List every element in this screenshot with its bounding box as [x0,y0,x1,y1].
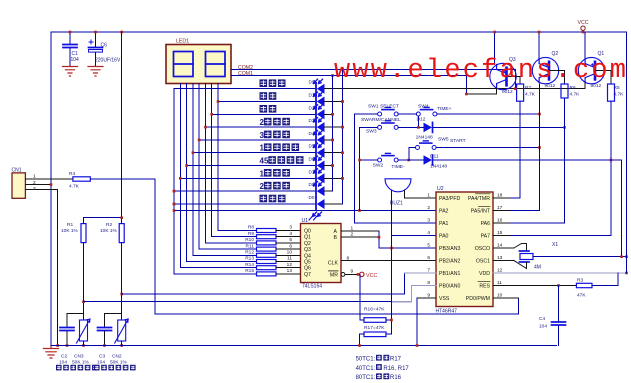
junction D4 on cathode bus [331,139,334,142]
junction D0 tap on v1 [173,203,176,206]
junction row D4 tap [198,139,201,142]
svg-text:Q0: Q0 [304,229,311,235]
thermistor CN2 50K [115,319,129,343]
junction PA2 row on v1 [173,209,176,212]
label 煲盖测温电阻 [56,365,98,371]
svg-text:45: 45 [260,157,269,166]
wire D12 cathode to R6 net [434,126,565,128]
junction PA2 riser [358,209,361,212]
junction bus A row D6 [331,164,334,167]
junction buzzer riser on PB3 wire [390,247,393,250]
svg-text:3: 3 [260,131,265,140]
wire R5 vertical [610,101,612,235]
wire TIME+ to scan net [437,113,540,115]
svg-text:Q5: Q5 [304,260,311,266]
svg-text:R11: R11 [246,243,255,249]
svg-text:3: 3 [33,186,36,192]
svg-text:3: 3 [427,218,430,224]
svg-text:PB1/AN1: PB1/AN1 [439,271,460,277]
wire Q1 emitter from VCC [584,32,586,59]
junction C6 top [94,31,97,34]
svg-text:104: 104 [71,57,80,63]
junction SW5 drop on TIME- row [408,159,411,162]
svg-text:U2: U2 [437,186,444,192]
wire AN1 bus to U2 pin7 riser [122,273,405,294]
wire R8 to U1 pin 3 [276,230,301,232]
wire BUZ1 right lead to PA3/PFD [405,190,436,198]
svg-text:VDD: VDD [479,271,490,277]
wire R13 to U1 pin 11 [276,261,301,263]
wire D9 row (keep-warm) [174,88,316,90]
wire Q2 emitter from VCC [538,32,540,59]
wire CN3 bottom [83,341,85,346]
svg-text:A: A [334,229,338,235]
svg-text:Q2: Q2 [304,241,311,247]
wire R17 right up [386,325,392,334]
svg-text:50K 1%: 50K 1% [110,360,128,366]
svg-text:10K 1%: 10K 1% [61,228,79,234]
svg-text:SW1 SELECT: SW1 SELECT [368,104,399,110]
wire Q1 collector drop [584,83,586,89]
LED D2 [314,105,325,120]
wire PA5/INT to scan net [510,210,540,212]
label 接 [376,364,382,370]
svg-text:C3: C3 [99,354,105,360]
junction COM2 on D9 net [514,87,517,90]
svg-text:D4: D4 [309,131,315,136]
wire CN2 bottom [121,341,123,346]
svg-text:X1: X1 [552,242,558,248]
wire PA4/TMR stub [493,197,510,199]
junction row D3 tap [204,126,207,129]
svg-text:D1: D1 [309,93,315,98]
junction row D6 tap [185,164,188,167]
resistor R5 4.7K [608,84,615,101]
LED D4 [314,130,325,145]
wire SW5 drop [408,148,410,161]
svg-text:U1: U1 [302,218,309,224]
junction row D1 tap [217,100,220,103]
junction R2 bus top [120,31,123,34]
diode D11 1N4148 [424,155,433,165]
svg-text:PA7: PA7 [481,234,491,240]
wire R7 vertical [519,101,521,198]
junction C2 ground [66,344,69,347]
wire CN1 pin2 to left bus [25,184,51,186]
wire segment bus v5 [199,84,256,250]
svg-text:D5: D5 [309,144,315,149]
svg-text:1: 1 [427,193,430,199]
svg-text:2: 2 [260,182,265,191]
junction bus B row D7 [341,177,344,180]
wire VSS stub [417,297,436,299]
svg-text:CN2: CN2 [112,354,122,360]
wire D4 anode stub [324,139,333,141]
svg-text:D6: D6 [309,157,315,162]
svg-text:3: 3 [289,225,292,231]
wire COM1 row and drop to Q3 collector wire [231,76,466,95]
capacitor C1 [63,32,77,66]
switch SW2 TIME- [378,153,399,162]
crystal X1 4M [514,244,533,269]
wire R12 to U1 pin 10 [276,254,301,256]
svg-text:104: 104 [539,324,547,330]
junction VCC stem [582,31,585,34]
switch SW1 SELECT [378,107,399,116]
junction bus B row D5 [341,151,344,154]
svg-text:VCC: VCC [366,273,377,279]
junction row D2 tap [210,113,213,116]
label text 快煮 [260,105,277,113]
svg-text:R16, R17: R16, R17 [383,366,409,372]
wire SW3 left [360,126,378,128]
svg-text:5: 5 [427,243,430,249]
LED D0 [313,198,325,216]
wire Q1 base to R5 [595,71,611,84]
svg-text:104: 104 [97,360,105,366]
wire VDD gray to right [493,272,627,274]
junction VSS ground [416,344,419,347]
svg-text:1: 1 [260,144,265,153]
junction crystal net right [625,255,628,258]
wire R15 to U1 pin 13 [276,273,301,275]
svg-text:6: 6 [289,243,292,249]
junction COM2 cathode-bus tap [341,68,344,71]
junction AN1 bus left end [120,293,123,296]
label text 2小时汤 [264,118,290,126]
wire segment bus v8 [218,84,257,231]
wire Q3 base to R7 [507,77,521,85]
svg-text:D12: D12 [417,117,426,123]
thermistor CN3 50K [77,319,91,343]
svg-text:R9: R9 [248,231,254,237]
wire D8 anode stub [324,190,333,192]
wire OSCO stub [493,247,514,249]
wire LED row D8 [174,190,316,192]
wire R14 to U1 pin 12 [276,267,301,269]
junction Q3 emitter VCC [493,31,496,34]
svg-text:Q6: Q6 [304,266,311,272]
switch SW3 SWARM/CANNEL [378,121,399,130]
wire SELECT row left to PA1 riser [355,113,378,115]
LED arrows above U1 (D0) [309,216,318,221]
label text 2小时粥 [264,182,290,190]
wire LED row D3 [205,126,315,128]
svg-text:OSCO: OSCO [475,246,490,252]
wire VSS ground riser [416,298,418,346]
junction D3 on cathode bus [341,126,344,129]
svg-text:OSC1: OSC1 [476,259,490,265]
junction C3 ground [103,344,106,347]
svg-text:MR: MR [330,273,338,279]
wire PWM bus [155,298,519,314]
wire R4 to PWM bus riser [90,179,155,314]
label text 1小时粥 [264,169,290,177]
svg-text:C4: C4 [539,316,545,322]
wire PA1 riser and row [355,114,437,223]
junction row D8 tap [173,190,176,193]
wire R3 to VDD net [592,273,618,286]
wire Q3 collector to COM1 drop [466,89,496,95]
svg-text:C6: C6 [101,43,108,49]
ground under C6 [88,67,103,77]
junction D11 row on R5 vertical [610,159,613,162]
wire LED row D2 [212,113,316,115]
svg-text:10K 1%: 10K 1% [100,228,118,234]
junction nested vertical on crystal wire [620,255,623,258]
junction row D7 tap [179,177,182,180]
svg-text:2: 2 [427,205,430,211]
wire CN1 pin1 to R4 [25,178,73,180]
svg-text:C2: C2 [61,354,67,360]
svg-text:B: B [334,235,338,241]
wire D11 cathode long row [434,159,622,161]
junction SW2 on PA2 riser [358,159,361,162]
svg-text:PA1: PA1 [439,221,449,227]
svg-text:R3: R3 [577,278,583,284]
svg-text:PA0: PA0 [439,234,449,240]
capacitor C2 104 [67,314,84,327]
wire VCC right vertical [626,32,628,273]
junction bus A row D2 [331,113,334,116]
label text 1小时蒸炖 [264,143,299,151]
svg-text:1N4148: 1N4148 [430,164,447,170]
label text 保温灯 [260,79,286,87]
wire RES to R3 [493,285,576,287]
wire LED row D1 [218,101,316,103]
svg-text:PB2/AN2: PB2/AN2 [439,259,460,265]
svg-text:PA4/TMR: PA4/TMR [468,196,490,202]
wire PD0/PWM stub [493,297,519,299]
svg-text:Q4: Q4 [304,253,311,259]
wire Q2 collector / scan vertical [539,84,541,211]
label text 煮饭 [260,92,277,100]
wire U1 CLK to U2 PB2/AN2 [341,260,436,262]
MR bubble [341,273,345,277]
svg-text:CLK: CLK [328,261,339,267]
svg-text:R10: R10 [245,237,254,243]
svg-text:10: 10 [287,250,293,256]
svg-text:R16: R16 [390,375,402,381]
svg-text:SW4: SW4 [418,104,429,110]
wire PA0 net riser to R16/R17 [391,236,393,335]
svg-text:PA3/PFD: PA3/PFD [439,196,460,202]
wire R16 right [386,319,392,321]
wire D7 anode stub [324,177,343,179]
LED D7 [314,169,325,184]
LED D6 [314,156,325,171]
junction D5 on cathode bus [341,151,344,154]
svg-text:PB0/AN0: PB0/AN0 [439,284,460,290]
svg-text:6: 6 [427,255,430,261]
svg-text:1N4148: 1N4148 [416,135,433,141]
wire SW2 left [360,159,378,161]
connector CN1 [12,173,25,198]
wire segment bus v4 [193,84,257,256]
svg-text:R4: R4 [69,171,75,177]
wire SW1 to SW4 bridge [398,113,416,115]
junction R17 ground [358,344,361,347]
svg-text:4: 4 [289,231,292,237]
wire LED row D5 [193,152,316,154]
svg-text:4.7K: 4.7K [69,184,80,190]
wire SW3 to D12 [398,126,423,128]
wire BUZ1 left lead [391,190,393,235]
microcontroller U2 HT46R47 [436,186,494,315]
svg-text:47K: 47K [577,293,586,299]
wire PA6 to R6 net [510,222,565,224]
svg-text:PD0/PWM: PD0/PWM [466,296,490,302]
svg-text:PB3/AN3: PB3/AN3 [439,246,460,252]
junction bus B row D1 [341,100,344,103]
wire R6 vertical [564,98,566,223]
wire D5 anode stub [324,152,343,154]
wire START to scan net [437,147,540,149]
svg-text:12: 12 [287,262,293,268]
wire PB0/AN0 gray stub [411,285,436,287]
wire R2 bottom to CN2 [121,243,123,320]
wire PA7 to R5 net [510,235,611,237]
svg-text:D9: D9 [309,80,315,85]
junction CN3 ground [82,344,85,347]
wire D0 anode stub [324,203,343,205]
wire Q2 base to R6 [549,71,565,84]
wire cathode bus B (COM2) [342,70,344,205]
wire R11 to U1 pin 6 [276,248,301,250]
svg-text:D7: D7 [309,169,315,174]
7-segment display LED1 [166,39,231,84]
wire PA4/TMR to R7 [510,197,520,199]
svg-text:VSS: VSS [439,296,450,302]
wire PA2 net long row [174,210,436,212]
wire VCC riser to R16 [360,274,364,320]
junction CN2 ground [120,344,123,347]
wire SW5 left stub [409,147,416,149]
label text 45分钟稀饭 [268,156,303,164]
wire D6 anode stub [324,165,333,167]
capacitor C3 104 [105,314,122,327]
wire crystal right to VCC vertical [533,256,627,258]
junction AN0 bus left end [82,300,85,303]
svg-text:CN1: CN1 [12,168,22,174]
junction VDD VCC [625,272,628,275]
label text 3小时汤 [264,131,290,139]
wire D2 anode stub [324,113,333,115]
wire SW2 to D11 [398,159,423,161]
wire OSC1 stub [493,260,514,262]
svg-text:74LS164: 74LS164 [302,284,322,290]
wire LED row D4 [199,139,315,141]
wire segment bus v1 (keep-warm / D9 net) [174,89,257,274]
svg-text:4.7K: 4.7K [570,92,581,98]
svg-text:R16=47K: R16=47K [364,307,385,313]
wire R1 top bracket [84,218,122,224]
wire PB1/AN1 gray stub [405,272,437,274]
wire R17 left to ground [360,334,365,345]
LED D1 [314,92,325,107]
svg-text:104: 104 [59,360,67,366]
wire D3 anode stub [324,126,343,128]
svg-text:40TC1:: 40TC1: [356,366,376,372]
wire R9 to U1 pin 4 [276,236,301,238]
wire PA2 riser [359,127,361,210]
junction D1 on cathode bus [341,100,344,103]
svg-text:4.7K: 4.7K [614,92,625,98]
svg-text:CN3: CN3 [74,354,84,360]
label 只接 [376,355,389,361]
junction VCC riser top [357,273,360,276]
svg-text:50TC1:: 50TC1: [356,357,376,363]
wire R10 to U1 pin 5 [276,242,301,244]
wire D9 anode to Q1 collector [324,88,585,90]
svg-text:D11: D11 [430,154,439,160]
wire segment bus v3 [187,84,257,262]
wire segment bus v7 [212,84,257,237]
junction A/B tie [378,236,381,239]
label 只接 [376,373,389,379]
wire PA6 stub [493,222,510,224]
svg-text:START: START [450,138,466,144]
wire cathode bus A (COM1) [332,76,334,192]
junction bus A row D4 [331,139,334,142]
wire CN1 pin3 to ground bus [25,190,57,346]
transistor Q3 9012 [490,63,516,89]
junction row D0 tap [173,203,176,206]
LED D3 [314,118,325,133]
wire PA7 stub [493,235,510,237]
wire LED row D0 [174,203,316,205]
svg-text:80TC1:: 80TC1: [356,375,376,381]
junction START on Q2 collector [538,146,541,149]
junction C1 top [69,31,72,34]
wire AN0 bus gray part to U2 pin8 riser [392,286,411,302]
svg-text:11: 11 [287,256,292,262]
wire D1 anode stub [324,101,343,103]
svg-text:9012: 9012 [502,89,513,95]
junction D6 on cathode bus [331,164,334,167]
junction C4 top [557,284,560,287]
svg-text:4.7K: 4.7K [525,92,536,98]
capacitor C4 104 [558,286,560,322]
ground main [44,346,59,359]
svg-text:220UF/16V: 220UF/16V [95,58,121,64]
svg-text:PA5/INT: PA5/INT [471,209,491,215]
svg-text:TIME-: TIME- [391,164,405,170]
svg-text:50K 1%: 50K 1% [72,360,90,366]
LED D8 [314,182,325,197]
shift register U1 74LS164 [301,218,342,290]
wire U1 B pin2 [341,236,379,238]
wire R1 bottom to CN3 [83,243,85,320]
resistor R7 4.7K [517,84,524,101]
svg-text:SW3: SW3 [366,129,377,135]
svg-text:5: 5 [289,237,292,243]
svg-text:Q1: Q1 [304,235,311,241]
svg-text:Q3: Q3 [304,247,311,253]
svg-text:R15: R15 [245,268,254,274]
VCC power symbol [578,20,589,32]
capacitor C6 220UF/16V [89,32,103,66]
wire MR to VCC point [345,273,359,275]
junction bus B row D3 [341,126,344,129]
wire VCC to R2 top [121,32,123,224]
svg-text:D2: D2 [309,105,315,110]
wire SW4 left drop to D12 row [417,116,419,127]
wire PA5/INT stub [493,210,510,212]
svg-text:4: 4 [427,230,430,236]
svg-text:D3: D3 [309,118,315,123]
svg-text:4M: 4M [534,265,541,271]
